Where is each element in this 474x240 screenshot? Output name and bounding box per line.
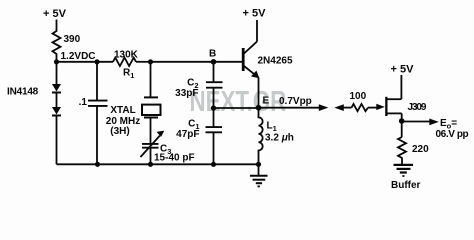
resistor 100 <box>350 91 369 111</box>
resistor R1 130K <box>113 50 139 81</box>
node rail below L1 <box>256 162 261 167</box>
svg-text:0.7Vpp: 0.7Vpp <box>279 96 312 107</box>
svg-text:R1: R1 <box>123 68 134 81</box>
output arrow Eo <box>402 118 469 140</box>
arrow in (resistor side) <box>334 104 351 111</box>
inductor L1 3.2uH <box>259 108 294 165</box>
wire +5V to R390 <box>56 20 58 31</box>
svg-text:+ 5V: + 5V <box>243 7 267 19</box>
wire junction to C1 <box>213 108 215 127</box>
capacitor .1 <box>79 97 108 108</box>
wire junction to node B <box>151 61 214 63</box>
wire C3 to rail <box>150 148 152 165</box>
resistor 390 <box>53 30 81 62</box>
arrow out (E side) <box>319 104 329 111</box>
svg-text:06.V pp: 06.V pp <box>436 129 469 140</box>
svg-text:100: 100 <box>350 91 367 102</box>
crystal XTAL 20MHz <box>106 97 161 137</box>
svg-text:NEXT.GR: NEXT.GR <box>190 86 287 117</box>
svg-text:130K: 130K <box>114 50 139 61</box>
node 1.2VDC <box>54 51 96 64</box>
svg-text:+ 5V: + 5V <box>43 8 67 20</box>
wire node E to arrow <box>259 107 321 109</box>
power +5V (J309 drain) <box>391 64 415 100</box>
label IN4148 <box>7 87 39 98</box>
label Buffer <box>391 180 421 191</box>
wire D2 to bottom rail <box>56 116 58 165</box>
gate arrowhead <box>376 104 385 110</box>
svg-text:390: 390 <box>64 34 81 45</box>
wire C2 to E-level junction <box>213 88 215 108</box>
wire node B to C2 <box>213 62 215 82</box>
wire node to D1 <box>56 62 58 84</box>
capacitor C2 33pF <box>175 78 222 100</box>
transistor Q1 2N4265 <box>242 42 293 79</box>
svg-text:J309: J309 <box>408 102 427 113</box>
wire 100 to J309 gate <box>368 107 378 109</box>
svg-text:.1: .1 <box>79 97 88 108</box>
svg-text:3.2 μh: 3.2 μh <box>265 133 294 144</box>
svg-text:2N4265: 2N4265 <box>258 56 293 67</box>
svg-text:XTAL: XTAL <box>110 105 135 116</box>
wire node B to Q1 base <box>214 61 243 63</box>
wire cap .1 to rail <box>96 106 98 164</box>
wire E-level junction to node E <box>214 107 259 109</box>
wire +5V to Q1 collector <box>256 20 258 42</box>
node B <box>209 49 216 65</box>
diode D1 IN4148 <box>52 84 61 93</box>
power +5V (Q1 collector) <box>243 7 267 19</box>
capacitor C1 47pF <box>176 119 222 141</box>
capacitor C3 variable 15-40pF <box>141 131 195 164</box>
diode D2 <box>52 107 61 116</box>
svg-text:15-40 pF: 15-40 pF <box>154 153 195 164</box>
node rail below C1 <box>211 162 216 167</box>
node rail below .1 <box>95 162 100 167</box>
svg-text:IN4148: IN4148 <box>7 87 39 98</box>
node cap .1 top <box>94 59 99 64</box>
wire source to 220 <box>401 121 403 137</box>
wire J309 source down <box>401 113 403 121</box>
ground (buffer) <box>394 160 414 176</box>
power +5V (oscillator) <box>43 8 67 20</box>
wire top rail to cap .1 <box>96 62 98 100</box>
svg-text:33pF: 33pF <box>175 88 198 99</box>
svg-text:Buffer: Buffer <box>391 180 421 191</box>
svg-text:(3H): (3H) <box>110 126 129 137</box>
node C2/C1 junction <box>211 105 216 110</box>
svg-text:47pF: 47pF <box>176 129 199 140</box>
node crystal junction <box>148 59 153 64</box>
svg-text:1.2VDC: 1.2VDC <box>61 51 96 62</box>
svg-text:E: E <box>263 96 270 107</box>
wire junction to crystal <box>150 62 152 97</box>
wire Q1 emitter to node E <box>258 78 260 108</box>
wire D1 to D2 <box>56 93 58 108</box>
node rail below C3 <box>148 162 153 167</box>
transistor J309 <box>385 97 427 116</box>
bottom rail <box>57 163 259 165</box>
wire C1 to rail <box>213 132 215 164</box>
watermark NEXT.GR <box>190 86 287 117</box>
wire R1 to crystal junction <box>136 61 151 63</box>
svg-text:B: B <box>209 49 216 60</box>
ground (oscillator) <box>250 164 268 186</box>
node source <box>399 118 405 124</box>
resistor 220 <box>398 137 429 160</box>
svg-text:220: 220 <box>412 144 429 155</box>
wire node to R1 <box>57 61 114 63</box>
svg-text:+ 5V: + 5V <box>391 64 415 76</box>
svg-text:L1: L1 <box>267 121 277 134</box>
wire crystal to C3 <box>150 118 152 144</box>
node E <box>256 96 312 111</box>
